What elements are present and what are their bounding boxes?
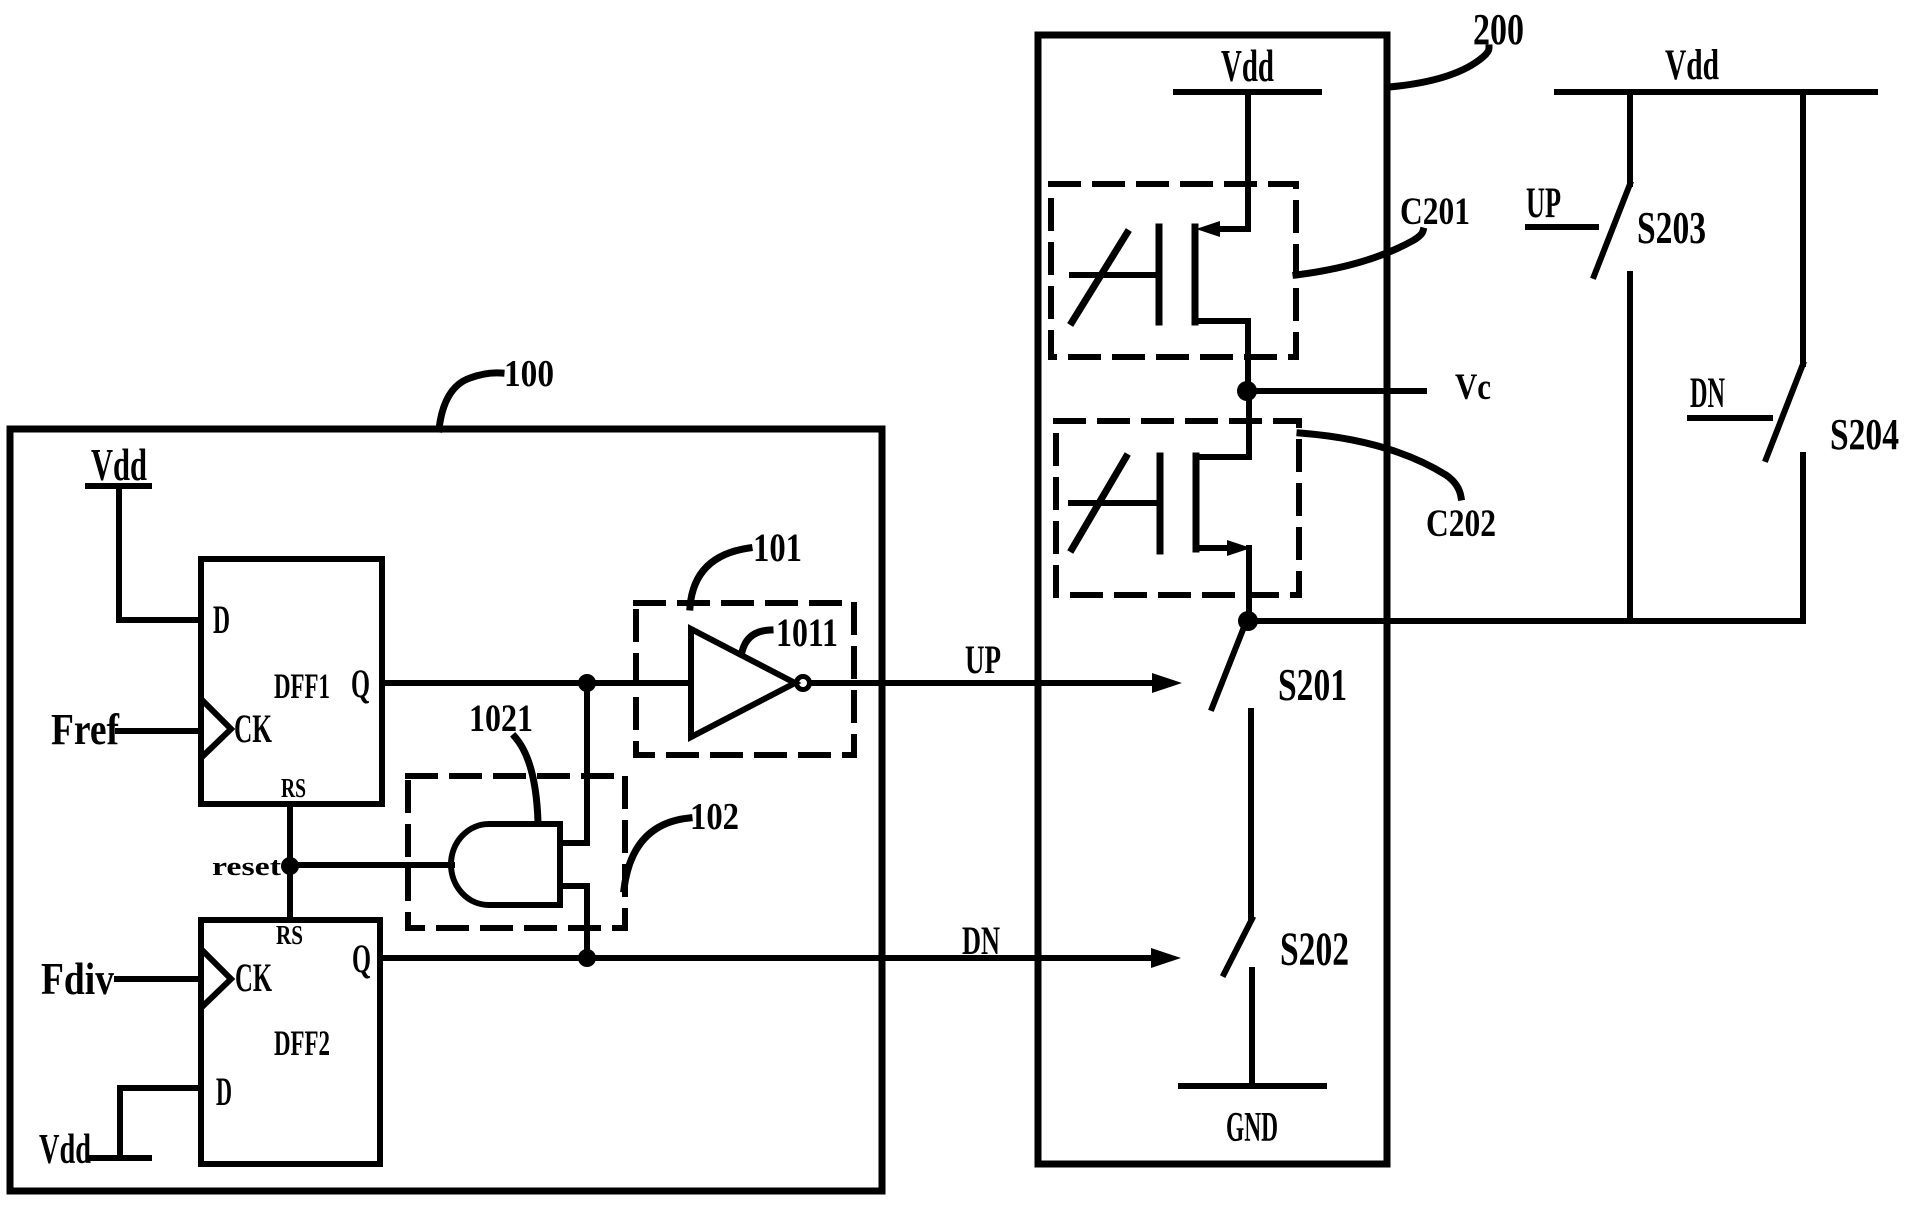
varactor C202 dashed box <box>1056 421 1299 595</box>
label C201 <box>1296 190 1470 275</box>
varactor C202 symbol <box>1071 396 1251 621</box>
clock triangle DFF2 <box>203 951 231 1006</box>
svg-text:Fdiv: Fdiv <box>41 953 114 1004</box>
label C202 <box>1300 433 1496 545</box>
svg-text:DN: DN <box>962 918 1000 963</box>
block 200 (loop filter / charge pump) <box>1038 35 1387 1164</box>
Vdd supply (DFF2 D input) <box>39 1127 149 1173</box>
switch S202 <box>1224 919 1349 1086</box>
svg-text:UP: UP <box>965 637 1001 682</box>
svg-text:DFF2: DFF2 <box>274 1023 330 1063</box>
clock triangle DFF1 <box>203 701 231 756</box>
dashed box 101 <box>636 603 854 755</box>
svg-text:Vdd: Vdd <box>1665 42 1719 89</box>
UP control label (S203) <box>1526 180 1596 227</box>
label 200 <box>1389 5 1524 87</box>
UP output wire <box>813 680 1155 686</box>
svg-text:1021: 1021 <box>469 697 533 740</box>
switch S201 <box>1212 627 1347 919</box>
inverter U101 triangle <box>691 629 795 737</box>
svg-text:GND: GND <box>1226 1105 1278 1151</box>
varactor C201 dashed box <box>1051 184 1296 357</box>
svg-text:DFF1: DFF1 <box>274 666 330 706</box>
junction dot on Q1 line <box>578 674 596 692</box>
svg-text:S204: S204 <box>1830 410 1899 459</box>
wire AND bottom input down to DN line <box>584 886 590 958</box>
DN output wire (DFF2 Q) <box>380 955 1154 961</box>
label 1011 <box>742 610 838 655</box>
node Vc dot <box>1237 381 1257 401</box>
svg-text:Fref: Fref <box>51 705 120 754</box>
svg-text:101: 101 <box>753 525 802 570</box>
block 100 (phase frequency detector) <box>10 429 882 1191</box>
svg-text:1011: 1011 <box>776 610 838 655</box>
svg-text:UP: UP <box>1526 180 1561 227</box>
svg-text:D: D <box>216 1069 232 1114</box>
svg-text:DN: DN <box>1690 370 1725 417</box>
reset wire from AND output <box>290 862 452 868</box>
svg-text:100: 100 <box>504 353 554 395</box>
flip-flop DFF1 <box>201 559 382 804</box>
dashed box 102 <box>408 776 625 928</box>
flip-flop DFF2 <box>201 920 380 1164</box>
label 100 <box>439 353 554 429</box>
svg-text:RS: RS <box>281 773 306 803</box>
label 1021 <box>469 697 538 822</box>
svg-text:C202: C202 <box>1426 502 1496 545</box>
wire Fdiv to DFF2 CK <box>117 976 201 982</box>
ground GND <box>1181 1086 1324 1151</box>
svg-text:RS: RS <box>276 920 303 950</box>
svg-text:S201: S201 <box>1278 660 1347 710</box>
svg-text:C201: C201 <box>1400 190 1470 233</box>
Vc wire <box>1247 388 1424 394</box>
node A dot (charge pump output node) <box>1238 611 1258 631</box>
svg-text:S203: S203 <box>1637 203 1706 253</box>
Vdd supply (DFF1 D input) <box>88 440 149 490</box>
wire Vdd to DFF1 D <box>119 486 201 620</box>
label 102 <box>624 796 739 889</box>
junction dot on DN line <box>578 949 596 967</box>
svg-text:D: D <box>213 597 230 642</box>
svg-text:Vc: Vc <box>1455 367 1491 408</box>
wire node A to right rail <box>1248 618 1803 624</box>
svg-text:reset: reset <box>212 852 281 881</box>
DN control label (S204) <box>1690 370 1770 418</box>
wire Vdd down to C201 <box>1245 92 1251 229</box>
svg-text:102: 102 <box>690 796 739 838</box>
wire Fref to DFF1 CK <box>118 728 201 734</box>
RS net vertical DFF1-DFF2 <box>287 804 293 920</box>
wire junction down to AND top input <box>584 683 590 843</box>
UP arrowhead <box>1152 673 1182 693</box>
DN arrowhead <box>1151 948 1181 968</box>
AND gate 1021 (mirrored, output left) <box>451 824 587 905</box>
inverter output bubble <box>797 677 810 690</box>
svg-text:CK: CK <box>235 955 272 1000</box>
svg-text:S202: S202 <box>1280 923 1349 976</box>
reset node dot <box>281 857 299 875</box>
wire DFF1 Q to inverter input <box>382 680 691 686</box>
Vdd rail (right) <box>1557 42 1875 92</box>
switch S203 <box>1594 92 1706 621</box>
svg-text:Q: Q <box>352 936 371 981</box>
wire Vdd to DFF2 D <box>120 1088 201 1158</box>
svg-text:CK: CK <box>234 706 272 751</box>
varactor C201 symbol <box>1072 221 1248 385</box>
svg-text:Q: Q <box>351 661 370 706</box>
svg-text:Vdd: Vdd <box>1221 41 1274 91</box>
svg-text:Vdd: Vdd <box>39 1127 91 1173</box>
label 101 <box>690 525 802 607</box>
svg-text:200: 200 <box>1473 5 1524 54</box>
switch S204 <box>1766 92 1899 621</box>
Vdd supply (box 200) <box>1176 41 1319 92</box>
svg-text:Vdd: Vdd <box>91 440 147 490</box>
